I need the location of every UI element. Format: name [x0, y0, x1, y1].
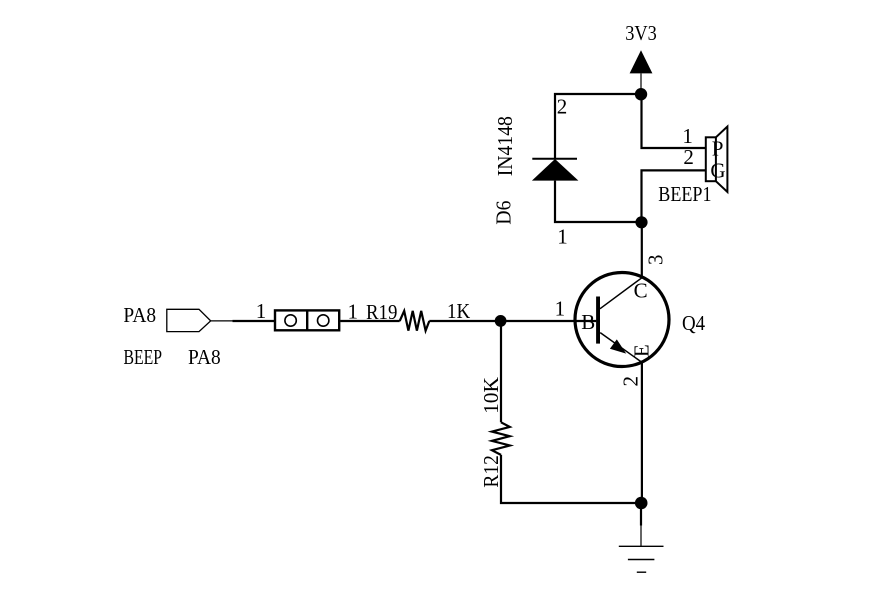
svg-text:PA8: PA8 [123, 303, 156, 327]
transistor Q4 [575, 273, 669, 367]
wire emitter down to ground node [641, 362, 643, 503]
jumper J? (2-pin header) [275, 310, 339, 330]
junction node C (base/R12) [495, 315, 507, 327]
svg-text:2: 2 [683, 145, 694, 169]
wire bottom of diode to node B [555, 181, 642, 222]
wire ground stem [640, 503, 642, 526]
svg-text:10K: 10K [479, 377, 503, 414]
ground [619, 546, 664, 572]
svg-text:1: 1 [256, 299, 267, 323]
svg-text:G: G [710, 159, 725, 183]
port flag PA8 [167, 309, 211, 331]
power symbol 3V3 [630, 50, 653, 95]
svg-text:3V3: 3V3 [625, 21, 657, 45]
resistor R19 [400, 311, 430, 331]
junction node D (ground) [635, 497, 648, 510]
svg-text:P: P [712, 137, 724, 161]
svg-text:IN4148: IN4148 [493, 116, 517, 176]
svg-text:2: 2 [619, 376, 643, 387]
speaker BEEP1 [706, 127, 728, 193]
junction node B (collector net) [635, 216, 647, 228]
svg-text:3: 3 [644, 254, 668, 265]
wire top-left of diode branch [555, 94, 642, 159]
wire jumper to R19 [340, 320, 400, 322]
svg-text:1: 1 [555, 296, 566, 320]
wire flag to jumper [211, 320, 234, 322]
wire speaker pin 2 down to node B [642, 170, 706, 222]
svg-text:Q4: Q4 [682, 311, 706, 335]
svg-text:PA8: PA8 [188, 345, 221, 369]
svg-text:B: B [581, 310, 595, 334]
svg-text:E: E [630, 344, 654, 357]
wire node A down to speaker pin 1 [642, 94, 706, 148]
wire R12 to ground rail [501, 455, 641, 503]
svg-text:C: C [634, 278, 648, 302]
wire node B down to transistor collector [641, 222, 643, 279]
resistor R12 [492, 422, 510, 455]
junction node A (3V3 rail) [635, 88, 647, 100]
svg-text:BEEP1: BEEP1 [658, 182, 711, 206]
svg-text:BEEP: BEEP [124, 345, 163, 369]
svg-text:1: 1 [347, 299, 358, 323]
svg-text:R12: R12 [479, 455, 503, 487]
svg-text:R19: R19 [366, 300, 397, 324]
wire node C down to R12 [500, 321, 502, 422]
svg-text:2: 2 [557, 95, 568, 119]
diode D6 [532, 159, 579, 181]
svg-text:D6: D6 [492, 201, 516, 225]
svg-text:1: 1 [557, 225, 568, 249]
wire R19 to base (through node C) [429, 320, 596, 322]
svg-text:1K: 1K [447, 299, 470, 323]
